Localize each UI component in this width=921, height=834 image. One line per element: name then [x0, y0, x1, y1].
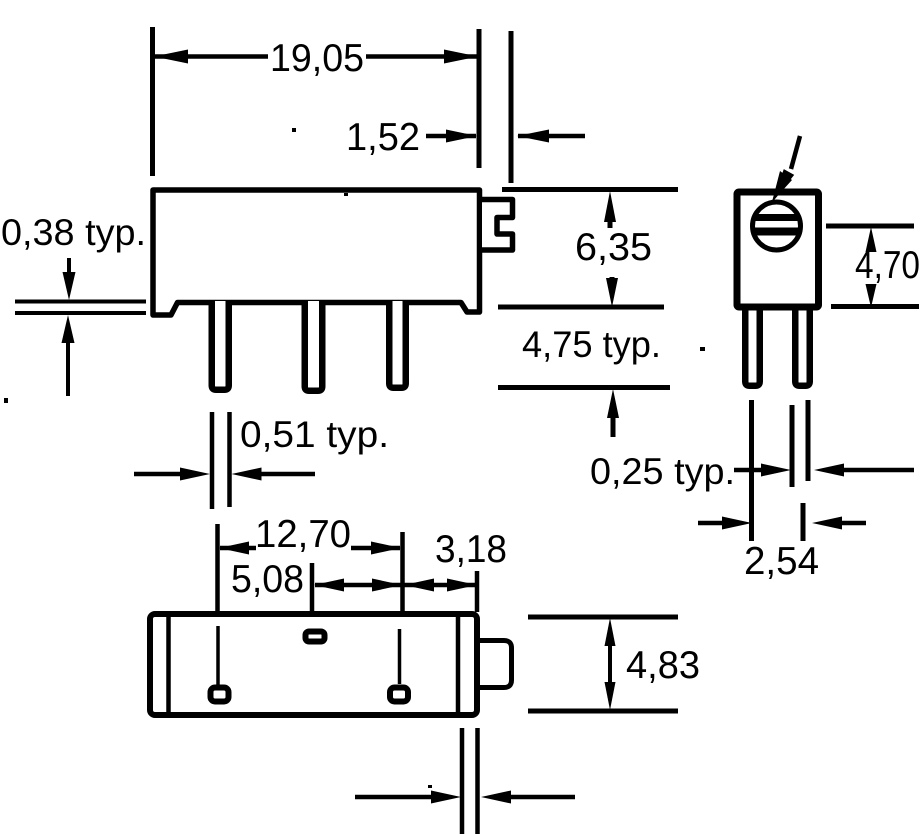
dimension 4,83 bottom reference line — [528, 709, 678, 714]
bottom view left end cap line — [166, 616, 171, 713]
dimension 0,38 typ label — [1, 212, 146, 253]
dimension 0,25 arrow right — [814, 464, 914, 477]
dimension 3,18 label — [435, 528, 507, 571]
dimension 0,51 arrow right — [232, 468, 316, 481]
dimension 19,05 arrow right — [366, 50, 478, 64]
svg-text:1,52: 1,52 — [346, 116, 420, 159]
svg-text:19,05: 19,05 — [270, 37, 364, 80]
tick right pin center (2,54) — [801, 503, 806, 541]
bottom view pin 3 pad — [390, 688, 408, 702]
side view body — [153, 190, 480, 315]
side view adjustment tab with slot notch — [482, 200, 513, 251]
dimension 4,75 arrow up below pin line — [607, 389, 619, 437]
extension line left pin center (2,54) — [749, 400, 754, 541]
top reference line for 6,35 — [502, 187, 678, 192]
dimension 6,35 arrow up — [604, 191, 616, 228]
seating plane line shared 6,35 / 4,75 — [498, 305, 664, 310]
dimension 0,51 arrow left — [134, 468, 210, 481]
dimension 0,38 lower reference line — [15, 311, 146, 315]
dimension 2,54 label — [744, 540, 819, 583]
dimension 12,70 right extension line — [400, 532, 405, 611]
extension line right pin left edge (0,25) — [790, 405, 795, 487]
svg-text:0,25 typ.: 0,25 typ. — [590, 451, 735, 492]
dimension 4,83 arrow up — [605, 618, 616, 646]
dimension 0,51 typ label — [240, 414, 389, 455]
dimension 3,18 right extension line — [475, 571, 480, 612]
svg-text:12,70: 12,70 — [255, 513, 351, 556]
dimension 0,38 arrow down — [63, 258, 76, 300]
svg-text:4,70: 4,70 — [855, 244, 920, 287]
dimension 12,70 label — [255, 513, 351, 556]
dimension 12,70 left extension line — [215, 524, 220, 614]
svg-text:4,83: 4,83 — [626, 644, 700, 687]
side view pin 1 — [212, 301, 229, 390]
dimension 5,08 left extension line — [310, 563, 315, 619]
end view pin right — [795, 306, 810, 386]
dimension 3,18 arrow left — [404, 579, 434, 592]
pin tip line for 4,75 — [498, 385, 670, 390]
svg-text:6,35: 6,35 — [575, 226, 652, 269]
svg-text:3,18: 3,18 — [435, 528, 507, 571]
dimension 0,51 right extension line — [227, 412, 232, 507]
bottom width left extension line — [460, 728, 465, 834]
end view body — [737, 192, 819, 307]
scan speck 3 — [700, 347, 705, 351]
dimension 4,70 arrow down — [866, 284, 877, 308]
side view pin 3 — [389, 301, 406, 388]
end view pin left — [745, 306, 760, 386]
dimension 5,08 / 3,18 chain line — [315, 583, 476, 588]
dimension 19,05 label — [270, 37, 364, 80]
dimension 4,83 arrow down — [605, 682, 616, 710]
dimension 0,51 left extension line — [210, 412, 215, 509]
bottom view right end cap line — [456, 616, 461, 713]
dimension 4,75 typ label — [522, 324, 661, 365]
dimension 2,54 arrow left — [698, 517, 752, 530]
dimension 12,70 arrow left — [219, 542, 256, 555]
dimension 5,08 label — [231, 558, 304, 601]
dimension 6,35 label — [575, 226, 652, 269]
dimension 5,08 arrow left — [314, 579, 344, 592]
scan speck 5 — [428, 785, 432, 788]
dimension 12,70 arrow right — [351, 542, 401, 555]
dimension 3,18 arrow right — [447, 579, 477, 592]
bottom view pin 2 pad — [306, 632, 325, 642]
bottom view screw boss — [477, 641, 512, 688]
bottom width right extension line — [475, 728, 480, 834]
dimension 1,52 label — [346, 116, 420, 159]
dimension 4,70 arrow up — [866, 227, 877, 252]
dimension 0,38 upper reference line — [15, 300, 146, 304]
dimension 1,52 arrow left — [426, 130, 477, 143]
screw slot upper line — [754, 214, 799, 221]
dimension 4,83 connector line — [608, 640, 612, 688]
dimension 4,83 label — [626, 644, 700, 687]
dimension 0,25 arrow left — [734, 464, 791, 477]
screw pointer arrow — [771, 136, 800, 204]
scan speck 2 — [344, 193, 348, 196]
extension line right pin right edge (0,25) — [806, 400, 811, 481]
dimension 6,35 arrow down — [606, 277, 618, 307]
scan speck 4 — [4, 398, 8, 403]
screw slot lower line — [753, 228, 800, 236]
scan speck 1 — [292, 128, 296, 132]
dimension 4,70 label — [855, 244, 920, 287]
svg-text:0,38 typ.: 0,38 typ. — [1, 212, 146, 253]
dimension 0,38 arrow up — [62, 315, 75, 396]
dimension 4,70 top reference line — [826, 224, 914, 229]
side view pin 2 — [305, 301, 323, 391]
dimension 4,83 top reference line — [528, 615, 678, 620]
bottom view pin 1 pad — [211, 688, 229, 702]
adjustment screw head — [753, 202, 801, 250]
dimension 19,05 left extension line — [150, 27, 155, 176]
dimension 2,54 arrow right — [812, 517, 866, 530]
dimension 1,52 arrow right — [517, 130, 585, 143]
bottom width arrow right — [481, 791, 575, 804]
svg-text:0,51 typ.: 0,51 typ. — [240, 414, 389, 455]
bottom width arrow left — [355, 791, 461, 804]
dimension 0,25 typ label — [590, 451, 735, 492]
dimension 5,08 arrow right — [372, 579, 402, 592]
svg-text:2,54: 2,54 — [744, 540, 819, 583]
svg-text:5,08: 5,08 — [231, 558, 304, 601]
dimension 4,70 bottom reference line — [831, 304, 919, 309]
bottom view body — [150, 614, 477, 715]
bottom view pin 1 center line — [216, 626, 220, 686]
dimension 19,05 arrow left — [154, 50, 268, 64]
dimension 1,52 right extension line — [509, 31, 514, 183]
dimension 19,05 / 1,52 shared extension line — [477, 29, 482, 168]
svg-text:4,75 typ.: 4,75 typ. — [522, 324, 661, 365]
bottom view pin 3 center line — [398, 629, 402, 684]
